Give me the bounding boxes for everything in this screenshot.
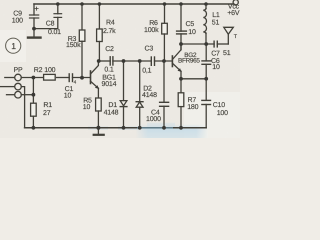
capacitor C3 [150,57,152,65]
diode D1 [123,61,125,101]
resistor R2 [44,74,56,80]
resistor R7 [178,93,184,107]
blue tinted rail segment [137,127,173,129]
input terminal stubs [5,77,15,79]
circled 1 [6,38,21,53]
node BG1 base R3 [80,76,84,80]
resistor R6 [164,4,166,23]
wire c1 to R2 [21,77,43,79]
node rail C4 [162,126,166,130]
capacitor C4 [163,61,165,102]
emitter arrow BG1 [95,85,99,89]
node rail R7 [179,126,183,130]
node D2 top [138,59,142,63]
node C9 ground [32,27,36,31]
ground below rail [97,128,99,134]
capacitor C8 [57,4,59,14]
wire BG2 collector row [181,43,214,45]
node R6 C4 base BG2 [162,59,166,63]
node top rail C5 [179,2,183,6]
bottom rail wire [25,127,207,129]
resistor R5 [96,98,102,111]
capacitor C5 [180,4,182,31]
capacitor C6 [205,64,207,78]
capacitor C10 [205,79,207,101]
node top rail C8 [56,2,60,6]
ground below C9 [33,29,35,37]
capacitor C7 [213,41,215,47]
emitter arrow BG2 [178,68,182,72]
capacitor C1 [68,74,70,82]
wire c2 ground return [21,87,24,128]
node PP c1 [32,76,36,80]
resistor R3 [81,4,83,30]
node rail D1 [122,126,126,130]
wire c3 junction [21,94,33,96]
capacitor C9 [33,4,35,15]
resistor R4 [98,4,100,29]
capacitor C2 [109,57,111,65]
transistor BG2 [171,56,173,67]
wire mid row (BG1 collector to BG2 base) [99,60,111,62]
node rail D2 [138,126,142,130]
top rail wire [34,3,234,5]
transistor BG1 [90,71,92,84]
terminal circles PP [15,74,22,81]
node top rail R3 [80,2,84,6]
wire emitter row BG2 [181,78,206,80]
node L1 C6 C7 [204,42,208,46]
node top rail R6 [163,2,167,6]
Vcc terminal [233,0,238,5]
node rail R1 [32,126,36,130]
node PP c3 R1 [32,93,36,97]
wire C9 to C8 bottom [34,28,58,30]
node C5 collector [179,42,183,46]
node top rail L1 [204,2,208,6]
node BG2 emitter [179,77,183,81]
diode D2 [139,61,141,102]
node D1 top [122,59,126,63]
inductor L1 [205,4,207,9]
node BG1 collector [97,59,101,63]
antenna [227,34,229,44]
resistor R1 [31,103,37,116]
node top rail R4 [98,2,102,6]
node C6 C10 [204,77,208,81]
node rail R5 ground [96,126,100,130]
